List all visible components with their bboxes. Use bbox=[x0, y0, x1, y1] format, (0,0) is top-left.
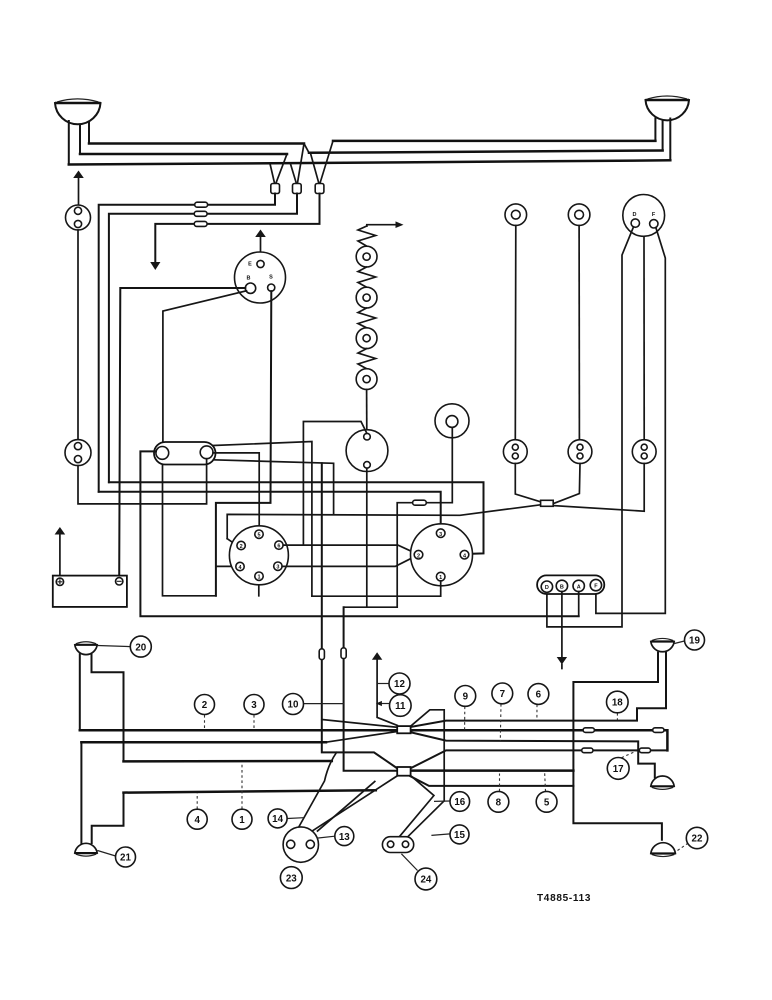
wire: ammeter lens bottom bbox=[214, 460, 334, 515]
arrow above flasher bbox=[73, 171, 84, 179]
lamp 21 bbox=[75, 843, 97, 856]
wire: lower flasher to ammeter right bbox=[78, 459, 207, 504]
svg-text:1: 1 bbox=[239, 815, 245, 826]
svg-text:3: 3 bbox=[439, 532, 442, 538]
svg-text:15: 15 bbox=[454, 830, 465, 841]
connector J2 bbox=[293, 184, 302, 194]
wire: right headlamp lead 3 bbox=[669, 119, 671, 161]
implement cable to connector 24 bbox=[407, 801, 444, 838]
wire: slant L1 end into connector J2 bbox=[297, 144, 304, 184]
wire: 4-pin T2 upper fan bbox=[303, 545, 415, 553]
resistor R3 bbox=[358, 308, 376, 328]
wire: lamp19 lead to tail run bbox=[573, 653, 662, 840]
callout 24 bbox=[401, 854, 417, 871]
svg-text:A: A bbox=[577, 584, 581, 590]
wire: switch B terminal to battery bbox=[119, 288, 245, 578]
wire: harness feed from ammeter lens bottom through capsule to block1 bbox=[322, 463, 397, 768]
svg-text:D: D bbox=[633, 212, 637, 218]
inline connector capsule vertical 1 bbox=[319, 649, 324, 660]
inline connector capsule on J1 line bbox=[195, 202, 208, 207]
inline capsule bus A left bbox=[583, 728, 594, 733]
wire: J1 drop and run to left drop bbox=[99, 194, 275, 492]
callout 12 bbox=[377, 683, 389, 685]
inline connector capsule vertical 2 bbox=[341, 648, 346, 659]
svg-text:B: B bbox=[560, 584, 564, 590]
flasher unit upper bbox=[66, 205, 91, 230]
svg-text:2: 2 bbox=[202, 700, 208, 711]
wire: bus R2 bbox=[309, 151, 663, 153]
svg-text:3: 3 bbox=[251, 700, 257, 711]
battery bbox=[53, 576, 127, 607]
wire: slant L2 end into connector J1 bbox=[276, 154, 287, 184]
wire: switch E terminal arrow bbox=[255, 230, 266, 238]
wire: slant L3 into connector J1 bbox=[270, 165, 274, 184]
beam unit B bbox=[568, 440, 592, 464]
svg-text:6: 6 bbox=[277, 544, 280, 550]
wire: beam A drop to crossover bbox=[515, 464, 540, 502]
inline connector capsule on J2 line bbox=[194, 211, 207, 216]
svg-text:2: 2 bbox=[240, 544, 243, 550]
wire: harness feed from jog line through capsule to block1 bbox=[344, 607, 398, 771]
wire: generator D to regulator bbox=[547, 227, 634, 627]
lamp 22 bbox=[651, 843, 676, 857]
inline connector capsule on horn line bbox=[413, 500, 427, 505]
callout 7 bbox=[499, 704, 502, 741]
wire: beam C top to generator bbox=[643, 237, 645, 440]
wire: drop A bbox=[514, 226, 517, 440]
wire: left headlamp lead 1 to bus L1 bbox=[88, 122, 90, 144]
wire: bus L2 bbox=[80, 153, 287, 156]
wire: lamp21 lead 1 to bus B bbox=[80, 742, 82, 843]
implement cable line 2 bbox=[399, 776, 434, 837]
wire: flasher upper to flasher lower bbox=[77, 230, 79, 440]
wire: bus B main bbox=[81, 741, 326, 744]
wire: battery positive lead bbox=[59, 535, 61, 579]
wire: bus R1 bbox=[333, 140, 655, 143]
wire: slant R2 tap into connector J3 bbox=[311, 154, 319, 183]
battery arrow bbox=[55, 527, 66, 535]
regulator bbox=[537, 575, 604, 594]
arrow wire 12 into block1 bbox=[372, 652, 382, 660]
beam unit A bbox=[503, 440, 527, 464]
svg-text:13: 13 bbox=[339, 832, 350, 843]
svg-text:2: 2 bbox=[417, 553, 420, 559]
svg-text:16: 16 bbox=[454, 797, 465, 808]
panel lamp L1 bbox=[356, 246, 377, 267]
inline capsule bus Cprime left bbox=[582, 748, 593, 753]
svg-text:9: 9 bbox=[463, 692, 469, 703]
wire: slant R1 end into connector J3 bbox=[320, 141, 333, 184]
resistor R1 bbox=[358, 226, 376, 246]
callout 1 bbox=[241, 763, 243, 810]
svg-text:4: 4 bbox=[194, 815, 200, 826]
wire: ammeter left stub and battery bus bbox=[140, 451, 578, 616]
wire: chain to coil top bbox=[366, 390, 368, 434]
wire: bus C into block2 bbox=[124, 760, 332, 763]
dash lamp chain arrow bbox=[367, 225, 398, 226]
callout 11 bbox=[380, 703, 390, 705]
callout 16 bbox=[434, 800, 450, 802]
headlamp left bbox=[55, 99, 101, 124]
wire: horn drop to capsule line bbox=[397, 427, 452, 596]
svg-text:B: B bbox=[247, 276, 251, 282]
callout 5 bbox=[544, 772, 547, 792]
wire: lighting switch T1 drop bbox=[258, 580, 260, 596]
wire: jog L1 to R2 bbox=[304, 144, 309, 153]
svg-text:5: 5 bbox=[257, 533, 260, 539]
callout 9 bbox=[464, 707, 466, 730]
wire: bus from J1 line to 4-pin T3 bbox=[99, 492, 441, 529]
wire: slant into T2 bbox=[227, 539, 237, 546]
callout 8 bbox=[499, 774, 501, 792]
svg-text:D: D bbox=[545, 585, 549, 591]
svg-text:7: 7 bbox=[500, 689, 506, 700]
wire: bottom run to ammeter left lower bbox=[163, 459, 216, 596]
ignition coil bbox=[346, 430, 388, 472]
crossover connector bbox=[541, 500, 554, 506]
wire: right headlamp lead 2 bbox=[662, 121, 664, 151]
inline connector capsule on J3 line bbox=[194, 221, 207, 226]
wire: regulator B to ground bbox=[561, 592, 563, 657]
wire: bus L3 common bbox=[69, 160, 671, 164]
panel lamp L2 bbox=[356, 287, 377, 308]
wire: switch B slant to ammeter left bbox=[163, 291, 247, 447]
callout 13 bbox=[317, 836, 335, 838]
callout 3 bbox=[253, 715, 255, 730]
callout 4 bbox=[196, 793, 198, 809]
svg-text:19: 19 bbox=[689, 636, 700, 647]
svg-text:11: 11 bbox=[395, 701, 406, 712]
svg-text:5: 5 bbox=[544, 798, 550, 809]
callout 17 bbox=[622, 751, 637, 758]
wire: T3 arm to 4-pin T2 lower fan bbox=[282, 556, 415, 566]
svg-text:23: 23 bbox=[286, 873, 297, 884]
connector 4-pin bbox=[411, 524, 473, 586]
pilot lamp A top bbox=[505, 204, 527, 226]
callout 23 bbox=[280, 867, 302, 889]
callout 18 bbox=[616, 713, 618, 720]
wire: J2 drop and run to left drop bbox=[109, 194, 297, 483]
connector J3 bbox=[315, 184, 324, 194]
callout 19 bbox=[675, 641, 685, 644]
wire: left headlamp lead 2 to bus L2 bbox=[79, 125, 81, 154]
wire: lighting switch T5 feed from S line bbox=[258, 503, 260, 530]
wire: ammeter right terminal to lighting switch T5 drop bbox=[213, 453, 259, 503]
lamp 19 bbox=[651, 638, 674, 651]
ground arrow regulator bbox=[557, 657, 567, 665]
svg-text:12: 12 bbox=[394, 679, 405, 690]
wire: arrow to flasher top bbox=[78, 178, 80, 205]
connector 23 bbox=[283, 827, 318, 862]
wire: branch from capsule line into block1 bbox=[322, 720, 397, 728]
panel lamp L4 bbox=[356, 369, 377, 390]
svg-text:21: 21 bbox=[120, 853, 131, 864]
svg-text:1: 1 bbox=[257, 575, 260, 581]
lighting switch 6-pin bbox=[229, 526, 288, 585]
callout 2 bbox=[204, 715, 206, 730]
callout 22 bbox=[678, 844, 688, 851]
inline capsule bus Cprime right bbox=[639, 748, 650, 753]
wire: branch to lighting switch terminal 4 bbox=[216, 565, 236, 567]
svg-text:20: 20 bbox=[135, 642, 146, 653]
svg-text:22: 22 bbox=[692, 834, 703, 845]
wire: block2 fan up to bus Cprime bbox=[411, 750, 668, 768]
wire: block1 fan to mid lamp line bbox=[411, 732, 655, 777]
headlamp right bbox=[646, 96, 690, 120]
callout 14 bbox=[287, 817, 303, 820]
wire: block1 fan to line 19b bbox=[411, 653, 667, 727]
resistor R4 bbox=[358, 349, 376, 369]
svg-text:6: 6 bbox=[536, 690, 542, 701]
inline capsule bus A right bbox=[653, 728, 664, 733]
callout 15 bbox=[431, 834, 450, 836]
connector J1 bbox=[271, 184, 280, 194]
svg-text:10: 10 bbox=[288, 700, 299, 711]
wire: slant L3 tap into connector J2 bbox=[291, 164, 297, 183]
wire: right headlamp lead 1 bbox=[654, 119, 656, 141]
wire: block2 fan down right bbox=[411, 776, 574, 786]
wire: crossover tail to beam C drop bbox=[553, 464, 644, 512]
wire: dimmer line to lighting switch T2 bbox=[227, 505, 540, 539]
wire: lamp20 lead 1 to bus A bbox=[79, 654, 81, 730]
wire: 4-pin T1 drop to left run bbox=[312, 581, 441, 596]
wire: coil bottom drop to jog line bbox=[366, 468, 368, 607]
pilot lamp B top bbox=[568, 204, 590, 226]
callout 6 bbox=[536, 705, 538, 720]
wire: block1 fan to connector 24 drop bbox=[411, 710, 445, 801]
trailer cable line 2 bbox=[318, 782, 375, 832]
wire: lamp21 lead 2 staircase to bus D bbox=[92, 793, 124, 843]
connector 24 bbox=[382, 837, 413, 853]
wire: drop B bbox=[578, 226, 580, 440]
wire: bus from J2 line to 4-pin T4 bbox=[109, 482, 484, 554]
wire: lamp20 lead 2 staircase to bus C bbox=[92, 654, 124, 761]
wire: bus L1 bbox=[89, 142, 304, 145]
harness junction block 2 bbox=[397, 767, 410, 776]
svg-text:T4885-113: T4885-113 bbox=[537, 893, 591, 904]
ground arrow below J3 line bbox=[150, 262, 160, 270]
wire: jog from T1 line down to capsule2 line bbox=[345, 596, 398, 607]
svg-text:18: 18 bbox=[612, 698, 623, 709]
horn button bbox=[435, 404, 469, 438]
wire: bus B branch into block1 bbox=[326, 732, 397, 743]
svg-text:3: 3 bbox=[276, 565, 279, 571]
callout 21 bbox=[98, 851, 116, 857]
svg-text:S: S bbox=[269, 275, 273, 281]
svg-text:E: E bbox=[248, 262, 252, 268]
wire: bus A main bbox=[80, 730, 668, 750]
ignition switch U1 bbox=[235, 252, 286, 303]
wire: left headlamp lead 3 to bus L3 bbox=[68, 121, 70, 165]
wire: T6 to coil top feed bbox=[283, 422, 367, 546]
panel lamp L3 bbox=[356, 328, 377, 349]
svg-text:17: 17 bbox=[613, 764, 624, 775]
svg-text:14: 14 bbox=[272, 814, 283, 825]
wire: bus D to tail cable bbox=[124, 790, 376, 792]
lamp 20 bbox=[75, 642, 97, 655]
generator bbox=[623, 195, 665, 237]
svg-text:8: 8 bbox=[496, 798, 502, 809]
wire: generator F to regulator bbox=[596, 227, 665, 613]
beam unit C bbox=[632, 440, 656, 464]
flasher unit lower bbox=[65, 440, 91, 466]
ammeter bbox=[154, 442, 216, 465]
wire: beam B drop to crossover bbox=[553, 464, 580, 504]
lamp mid right bbox=[651, 776, 674, 789]
trailer cable curve bbox=[295, 752, 336, 833]
wire: ammeter lens top to right drop bbox=[214, 442, 312, 597]
callout 20 bbox=[98, 646, 131, 647]
wire: regulator A to battery bus bbox=[578, 592, 580, 617]
wire: block2 straight bus right bbox=[411, 769, 574, 772]
callout 10 bbox=[304, 703, 344, 705]
wire: J3 drop and run to ground arrow bbox=[155, 194, 319, 263]
resistor R2 bbox=[358, 267, 376, 287]
trailer cable to connector 23 bbox=[313, 776, 398, 831]
harness junction block 1 bbox=[397, 726, 410, 733]
wire: switch S drop and run bbox=[216, 291, 271, 596]
svg-text:24: 24 bbox=[420, 875, 431, 886]
